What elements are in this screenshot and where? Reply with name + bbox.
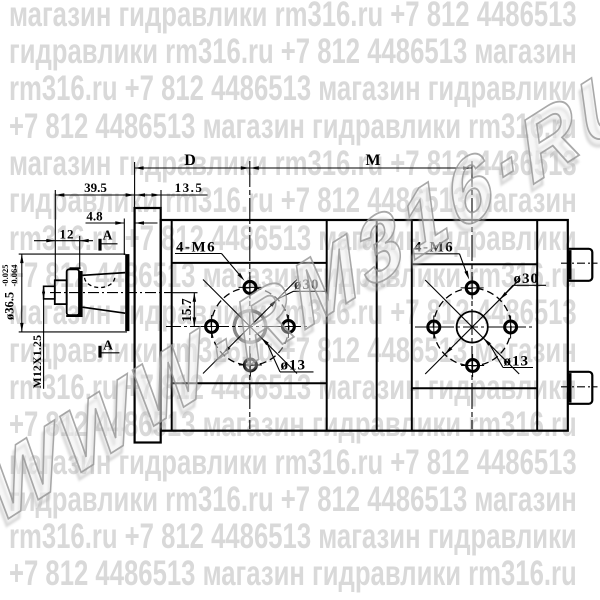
svg-text:WWW·RM316·RU: WWW·RM316·RU <box>0 38 600 543</box>
